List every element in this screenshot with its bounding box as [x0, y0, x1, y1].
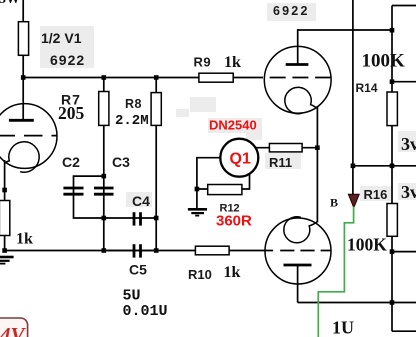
svg-text:C5: C5 [129, 261, 147, 277]
svg-text:1/2 V1: 1/2 V1 [41, 30, 82, 46]
svg-text:4V: 4V [0, 323, 27, 337]
svg-text:1k: 1k [224, 54, 241, 71]
svg-text:R8: R8 [125, 97, 142, 111]
svg-text:R9: R9 [194, 54, 212, 69]
svg-text:R14: R14 [356, 81, 378, 95]
svg-text:1U: 1U [332, 318, 354, 337]
svg-text:5W: 5W [0, 0, 20, 7]
svg-text:100K: 100K [362, 51, 406, 72]
svg-text:3v: 3v [401, 134, 416, 154]
svg-text:C2: C2 [62, 154, 80, 170]
svg-text:R11: R11 [269, 155, 292, 170]
svg-text:R10: R10 [188, 267, 212, 282]
svg-text:Q1: Q1 [230, 150, 251, 167]
svg-text:C4: C4 [132, 193, 150, 209]
svg-text:360R: 360R [216, 213, 252, 230]
svg-text:C3: C3 [112, 154, 130, 170]
svg-text:100K: 100K [347, 235, 387, 255]
svg-text:1k: 1k [16, 231, 33, 248]
svg-text:6922: 6922 [273, 4, 310, 18]
svg-text:6922: 6922 [50, 52, 85, 68]
svg-text:0.01U: 0.01U [123, 303, 168, 320]
svg-text:205: 205 [58, 103, 85, 123]
svg-text:3v: 3v [401, 182, 416, 202]
svg-text:DN2540: DN2540 [209, 118, 257, 133]
svg-text:R16: R16 [364, 187, 388, 202]
svg-text:B: B [330, 196, 338, 210]
svg-text:1k: 1k [224, 264, 241, 281]
svg-text:2.2M: 2.2M [115, 113, 149, 129]
